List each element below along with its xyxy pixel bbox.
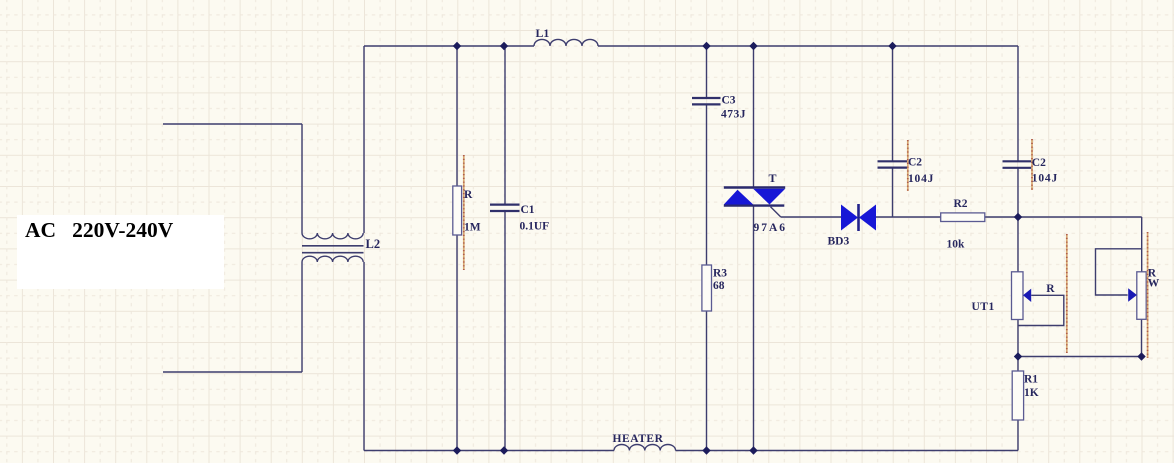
svg-text:10k: 10k: [947, 239, 966, 251]
wire: diac to R2: [876, 216, 941, 218]
svg-text:R: R: [464, 189, 473, 201]
node top rail x706: [702, 42, 710, 50]
node bottom rail x504: [500, 446, 508, 454]
triac T top bar: [724, 186, 785, 188]
svg-text:473J: 473J: [721, 109, 746, 121]
node top rail x457: [453, 42, 461, 50]
svg-text:L1: L1: [536, 26, 550, 40]
wire: RW bottom lead: [1141, 319, 1143, 356]
tan marker line right of UT1: [1066, 234, 1068, 353]
wire: R 1M top lead: [456, 46, 458, 186]
svg-text:104J: 104J: [908, 173, 934, 185]
wire: C2b top lead from top-rail corner: [1017, 46, 1019, 161]
svg-text:1M: 1M: [464, 222, 481, 234]
resistor R2 body: [941, 213, 985, 222]
capacitor C2b plates: [1003, 161, 1032, 168]
node connector x1018: [1014, 352, 1022, 360]
node top rail x504: [500, 42, 508, 50]
svg-text:68: 68: [713, 280, 725, 292]
triac T bottom bar: [724, 204, 785, 206]
svg-text:C2: C2: [908, 157, 922, 169]
white label plate: [17, 215, 224, 289]
svg-text:AC 220V-240V: AC 220V-240V: [25, 218, 174, 242]
wire: bottom connector between pots: [1018, 356, 1142, 358]
svg-text:BD3: BD3: [828, 236, 850, 248]
wire: RW wiper loop: [1096, 249, 1142, 295]
svg-text:R1: R1: [1024, 374, 1038, 386]
node bottom rail x753: [749, 446, 757, 454]
resistor R3 body: [702, 265, 712, 311]
triac T down triangle: [753, 189, 785, 205]
tan marker line at RW: [1147, 232, 1149, 358]
node connector x1141: [1137, 352, 1145, 360]
heater element coil: [614, 445, 676, 451]
potentiometer RW body: [1137, 272, 1146, 320]
wire: left vertical upper (stub to L2 primary): [301, 124, 303, 233]
svg-text:R: R: [1046, 283, 1055, 295]
wire: C3 top lead: [706, 46, 708, 97]
wire: bottom rail right segment: [676, 450, 1019, 452]
svg-text:HEATER: HEATER: [613, 433, 664, 445]
transformer L2 primary winding: [302, 233, 363, 239]
svg-text:0.1UF: 0.1UF: [520, 221, 550, 233]
svg-text:UT1: UT1: [972, 301, 995, 313]
svg-text:R3: R3: [713, 268, 727, 280]
triac T up triangle: [724, 190, 753, 205]
wire: L2 right vertical up to top rail: [363, 46, 365, 233]
capacitor C3 plates: [692, 98, 721, 104]
tan marker line at C2b: [1031, 139, 1033, 190]
tan marker line at C2a: [907, 140, 909, 191]
resistor R 1M body: [453, 186, 462, 235]
RW wiper arrow: [1128, 288, 1137, 302]
node bottom rail x706: [702, 446, 710, 454]
wire: UT1 wiper loop: [1018, 295, 1064, 325]
wire: R3 bottom lead: [706, 311, 708, 451]
svg-text:1K: 1K: [1024, 387, 1039, 399]
wire: top rail left segment: [364, 45, 534, 47]
diac BD3 left triangle: [841, 205, 858, 231]
capacitor C2a plates: [878, 161, 908, 167]
wire: C2b bottom lead down to UT1: [1017, 168, 1019, 272]
wire: L2 right vertical down to bottom rail: [363, 262, 365, 451]
diac BD3 center bar: [857, 204, 860, 231]
wire: C2a top lead: [892, 46, 894, 161]
wire: AC bottom stub: [163, 371, 302, 373]
wire: UT1 bottom to node: [1017, 319, 1019, 371]
node top rail x753: [749, 42, 757, 50]
wire: C2a bottom lead: [892, 168, 894, 217]
wire: bottom rail left segment: [364, 450, 614, 452]
svg-text:R2: R2: [954, 198, 968, 210]
svg-text:104J: 104J: [1032, 173, 1058, 185]
node bottom rail x457: [453, 446, 461, 454]
capacitor C1 plates: [490, 98, 1032, 211]
node gate line x1018: [1014, 213, 1022, 221]
wire: RW top lead: [1141, 217, 1143, 272]
diac BD3 right triangle: [859, 205, 876, 231]
svg-text:T: T: [769, 171, 777, 185]
wire: R 1M bottom lead: [456, 235, 458, 451]
svg-text:C1: C1: [521, 204, 535, 216]
inductor L1: [534, 39, 598, 46]
wire: left vertical lower (L2 secondary to stub): [301, 262, 303, 372]
wire: triac bottom lead: [753, 207, 755, 451]
transformer L2 core lines: [302, 246, 364, 253]
svg-text:C2: C2: [1032, 157, 1046, 169]
node top rail x892: [888, 42, 896, 50]
tan marker line at R 1M: [463, 155, 465, 270]
svg-text:L2: L2: [366, 237, 381, 251]
wire: R1 bottom lead: [1017, 420, 1019, 451]
potentiometer UT1 body: [1012, 272, 1024, 320]
svg-text:W: W: [1148, 278, 1160, 290]
wire: gate line to diac BD3: [781, 216, 841, 218]
wire: R2 to corner right: [985, 216, 1142, 218]
svg-text:97A6: 97A6: [754, 222, 788, 234]
wire: C1 bottom lead: [504, 212, 506, 451]
svg-text:C3: C3: [722, 95, 736, 107]
wire: top rail right segment: [598, 45, 1018, 47]
wire: AC top stub: [163, 123, 302, 125]
wire: C1 top lead: [504, 46, 506, 204]
wire: triac top lead: [753, 46, 755, 187]
wire: C3 to R3 lead: [706, 105, 708, 265]
transformer L2 secondary winding: [302, 256, 363, 262]
UT1 wiper arrow: [1023, 289, 1031, 302]
resistor R1 body: [1012, 371, 1023, 420]
wire: triac gate diagonal: [771, 207, 781, 217]
